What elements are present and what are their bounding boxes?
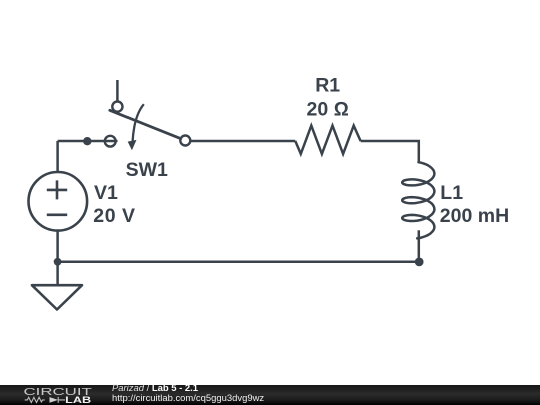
wire	[58, 261, 419, 264]
wire	[361, 141, 419, 162]
wire	[191, 140, 295, 143]
resistor R1	[295, 126, 360, 154]
svg-text:V1: V1	[94, 182, 118, 204]
svg-text:LAB: LAB	[65, 395, 92, 405]
wire	[56, 231, 59, 262]
node junction dot	[54, 258, 62, 266]
node junction dot	[415, 258, 424, 267]
ground	[32, 285, 82, 309]
wire	[58, 140, 118, 143]
CircuitLab logo	[0, 385, 100, 405]
wire	[116, 80, 119, 102]
svg-text:20 Ω: 20 Ω	[307, 98, 349, 120]
switch SW1	[105, 102, 191, 151]
svg-text:L1: L1	[440, 182, 463, 204]
wire	[56, 141, 59, 172]
svg-text:R1: R1	[315, 74, 340, 96]
svg-text:200 mH: 200 mH	[440, 205, 509, 227]
svg-text:SW1: SW1	[126, 159, 168, 181]
footer bar	[0, 385, 540, 405]
inductor L1	[402, 162, 434, 238]
wire	[418, 230, 421, 262]
svg-text:20 V: 20 V	[93, 205, 135, 227]
footer title	[112, 384, 264, 405]
wire	[56, 262, 59, 285]
voltage source V1	[29, 172, 88, 231]
node junction dot	[83, 137, 91, 145]
